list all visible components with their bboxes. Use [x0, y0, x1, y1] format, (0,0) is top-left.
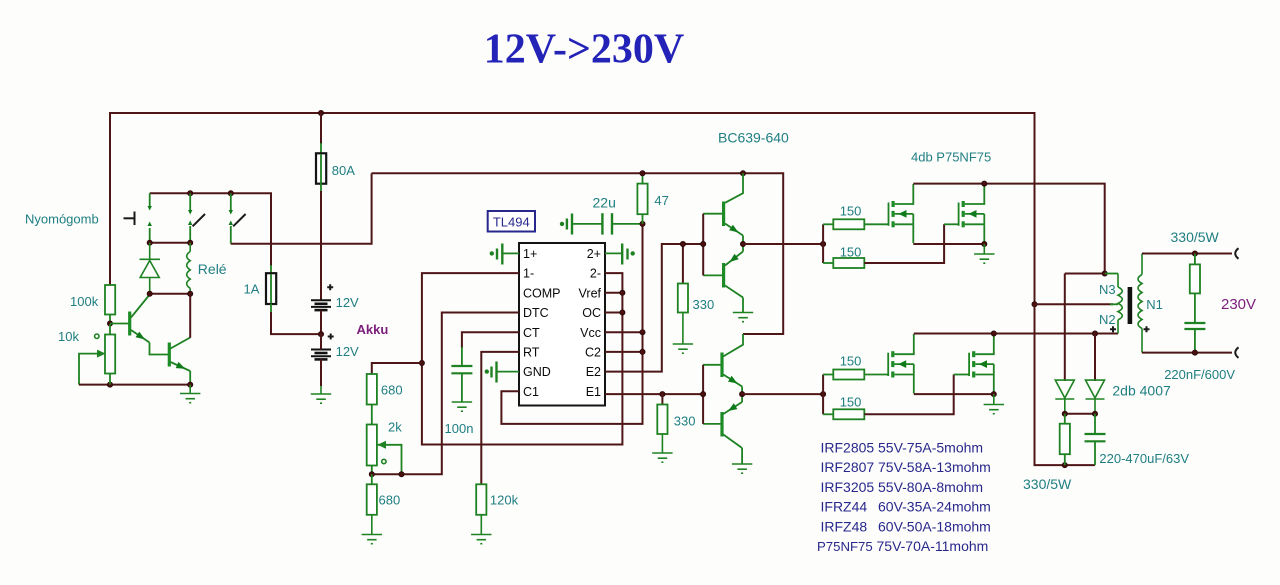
svg-text:80A: 80A	[332, 163, 355, 178]
capacitor 100n	[451, 347, 472, 402]
transistor Q6 BC640 lower PNP	[703, 394, 742, 463]
resistor 150 a	[823, 223, 833, 225]
capacitor at pin 1+	[491, 244, 520, 265]
wire 10k wiper	[79, 354, 105, 385]
svg-text:N3: N3	[1099, 282, 1116, 297]
mosfet M2 P75NF75	[959, 184, 985, 244]
wire 2k bottom	[371, 466, 373, 475]
svg-text:COMP: COMP	[523, 286, 561, 300]
node sw2 top	[228, 191, 233, 196]
mosfet M3 P75NF75	[888, 334, 914, 394]
wire N3 feed	[1065, 273, 1105, 275]
svg-text:10k: 10k	[58, 329, 79, 344]
terminal bottom	[1235, 347, 1238, 358]
transistor Q5 BC639 lower NPN	[703, 334, 743, 394]
wire lower driver to gates	[742, 393, 823, 395]
wire 80A to battery	[320, 184, 322, 193]
svg-text:TL494: TL494	[493, 215, 530, 230]
capacitor at pin 2+	[605, 244, 634, 265]
fuse 80A	[320, 154, 322, 184]
resistor 47	[642, 173, 644, 184]
capacitor 220-470uF	[1085, 414, 1106, 465]
svg-text:150: 150	[840, 203, 862, 218]
wire divider top	[372, 363, 422, 375]
wire relay contact rail	[150, 193, 271, 266]
svg-text:GND: GND	[523, 365, 551, 379]
svg-text:2+: 2+	[587, 247, 601, 261]
resistor 150 b	[823, 262, 833, 264]
wire diode column	[1064, 274, 1066, 382]
svg-text:1-: 1-	[523, 267, 534, 281]
svg-text:330: 330	[674, 413, 696, 428]
transformer TR1	[1118, 274, 1122, 334]
svg-text:CT: CT	[523, 326, 540, 340]
svg-text:12V: 12V	[336, 344, 359, 359]
svg-text:N1: N1	[1146, 297, 1163, 312]
wire RT net	[481, 352, 519, 485]
wire E1 net	[605, 393, 703, 395]
wire output top	[1142, 253, 1232, 255]
svg-text:N2: N2	[1099, 312, 1116, 327]
wire relay bottom	[150, 293, 191, 295]
wire center tap	[1035, 303, 1114, 305]
wire 100k to node	[109, 315, 111, 325]
diode D1 flyback	[140, 243, 161, 294]
mosfet M4 P75NF75	[969, 334, 994, 394]
polarity marks	[1110, 326, 1116, 332]
resistor 680 upper	[367, 374, 377, 405]
svg-text:1A: 1A	[244, 281, 260, 296]
node top rail / 80A branch	[318, 110, 323, 115]
node divider top	[419, 360, 424, 365]
node sw1 top	[188, 191, 193, 196]
resistor 330 upper	[682, 244, 684, 284]
wire lower driver base tie	[702, 365, 704, 424]
IC TL494 box	[519, 243, 605, 406]
fuse 1A	[270, 193, 272, 266]
capacitor 220nF/600V	[1184, 323, 1205, 353]
ground 330 lower	[652, 434, 672, 462]
svg-text:RT: RT	[523, 346, 540, 360]
capacitor 22u	[561, 213, 643, 234]
svg-text:2k: 2k	[388, 419, 402, 434]
wire diode join	[1065, 413, 1095, 415]
ground 120k	[471, 515, 491, 544]
svg-text:2-: 2-	[590, 267, 601, 281]
mosfet type list	[817, 440, 991, 555]
svg-text:220nF/600V: 220nF/600V	[1164, 367, 1235, 382]
diode D2 4007	[1055, 380, 1074, 414]
svg-text:22u: 22u	[593, 195, 616, 211]
wire sw2 to driver rail riser	[231, 173, 372, 244]
svg-text:Akku: Akku	[357, 322, 389, 337]
svg-text:12V->230V: 12V->230V	[484, 27, 684, 73]
wire 80A riser upper	[320, 113, 322, 144]
svg-text:1+: 1+	[523, 247, 537, 261]
svg-text:IRF280775V-58A-13mohm: IRF280775V-58A-13mohm	[821, 459, 991, 475]
svg-text:220-470uF/63V: 220-470uF/63V	[1099, 451, 1189, 466]
wire 2k wiper	[378, 445, 402, 475]
svg-text:47: 47	[654, 193, 668, 208]
svg-text:12V: 12V	[336, 295, 359, 310]
wire lower sources	[914, 393, 994, 395]
core	[1128, 287, 1133, 324]
wire snubber return	[1035, 304, 1096, 465]
wire 150b to M2 gate	[864, 224, 944, 263]
svg-text:330/5W: 330/5W	[1171, 229, 1220, 245]
svg-text:4db P75NF75: 4db P75NF75	[911, 150, 991, 165]
node upper driver out	[740, 241, 745, 246]
wire Vcc lead	[605, 331, 643, 333]
svg-text:100n: 100n	[445, 421, 474, 436]
wire upper driver base tie	[702, 214, 704, 276]
wire output bottom	[1142, 352, 1232, 354]
svg-text:330/5W: 330/5W	[1023, 476, 1072, 492]
ground 680	[362, 515, 382, 544]
ground upper PNP	[733, 313, 753, 322]
svg-text:IRF320555V-80A-8mohm: IRF320555V-80A-8mohm	[821, 479, 984, 495]
transistor Q4 BC640 upper PNP	[703, 244, 743, 312]
wire DTC net	[372, 313, 519, 475]
resistor 330/5W output	[1194, 254, 1196, 265]
node center tap rail	[1032, 302, 1037, 307]
potentiometer 10k	[105, 335, 115, 374]
node 47/22u/Vcc	[640, 221, 645, 226]
ground battery	[311, 386, 331, 403]
wire bottom left	[79, 384, 190, 386]
push button contacts	[148, 193, 152, 243]
svg-text:DTC: DTC	[523, 306, 549, 320]
svg-text:E1: E1	[586, 385, 601, 399]
primary N3/N2 winding	[1117, 274, 1119, 288]
wire OC lead	[605, 312, 622, 314]
ground under Q2	[180, 385, 200, 403]
resistor 330/5W snubber	[1064, 414, 1066, 424]
label box TL494	[488, 211, 535, 232]
wire Vref lead	[605, 292, 622, 294]
wire C1 wrap to C2/Vcc column	[501, 224, 642, 424]
svg-text:680: 680	[379, 493, 401, 508]
terminal top	[1235, 248, 1238, 259]
svg-text:C2: C2	[585, 346, 601, 360]
svg-text:230V: 230V	[1221, 296, 1256, 313]
node lower driver out	[740, 392, 745, 397]
wire lower drain rail	[914, 333, 1118, 335]
svg-text:150: 150	[840, 245, 862, 260]
svg-text:120k: 120k	[490, 493, 519, 508]
wire Q2 collector	[189, 294, 191, 338]
svg-text:150: 150	[840, 395, 862, 410]
ground lower mosfets	[984, 394, 1004, 414]
transistor Q1	[130, 295, 168, 355]
wire 680 to 2k	[371, 405, 373, 425]
node upper gates junction	[821, 241, 826, 246]
ground lower PNP	[732, 464, 752, 473]
wire base T1	[110, 323, 129, 325]
wire pushbutton bottom	[150, 242, 191, 244]
ground 100n	[452, 402, 472, 411]
wire 150d to M4 gate	[864, 375, 953, 415]
secondary N1 winding	[1138, 254, 1142, 353]
svg-text:OC: OC	[582, 306, 601, 320]
push button symbol	[124, 212, 135, 226]
svg-text:100k: 100k	[70, 294, 99, 309]
relay coil	[187, 243, 191, 294]
mosfet M1 P75NF75	[889, 184, 914, 243]
resistor 680 lower	[371, 474, 373, 484]
svg-text:E2: E2	[586, 365, 601, 379]
svg-text:Vref: Vref	[579, 286, 602, 300]
svg-text:Relé: Relé	[198, 261, 227, 277]
svg-text:P75NF7575V-70A-11mohm: P75NF7575V-70A-11mohm	[817, 538, 988, 554]
battery B2 12V	[328, 334, 334, 340]
node emitter Q2	[188, 382, 193, 387]
node battery mid	[318, 332, 323, 337]
svg-text:Vcc: Vcc	[580, 326, 601, 340]
relay switch contact 1	[188, 193, 205, 243]
ground 330 upper	[673, 313, 693, 354]
svg-text:IRF280555V-75A-5mohm: IRF280555V-75A-5mohm	[821, 440, 984, 456]
capacitor at pin GND	[486, 362, 520, 383]
wire top +24V rail	[110, 113, 1035, 304]
svg-text:IFRZ4460V-35A-24mohm: IFRZ4460V-35A-24mohm	[821, 499, 991, 515]
svg-text:330: 330	[693, 297, 715, 312]
resistor 150 c	[823, 374, 833, 376]
wire driver +12V rail	[372, 173, 784, 334]
transistor Q3 BC639 upper NPN	[703, 173, 743, 244]
svg-text:C1: C1	[523, 385, 539, 399]
wire 1- feedback loop	[422, 273, 623, 444]
svg-text:IRFZ4860V-50A-18mohm: IRFZ4860V-50A-18mohm	[821, 518, 991, 534]
transistor Q2	[169, 338, 190, 385]
wire CT net	[462, 332, 519, 348]
wire upper drain rail	[913, 184, 1104, 274]
resistor 150 d	[823, 413, 833, 415]
svg-text:Nyomógomb: Nyomógomb	[25, 212, 99, 227]
svg-text:2db 4007: 2db 4007	[1112, 382, 1171, 398]
wire upper driver to gates	[743, 243, 823, 245]
node 10k bottom	[107, 382, 112, 387]
ground upper mosfets	[974, 244, 994, 263]
battery B1 12V	[311, 300, 331, 310]
svg-text:BC639-640: BC639-640	[718, 130, 789, 146]
svg-text:680: 680	[381, 383, 403, 398]
resistor 100k	[105, 285, 115, 315]
node base T1	[107, 321, 112, 326]
resistor 120k	[476, 484, 486, 515]
resistor 330 lower	[661, 394, 663, 405]
svg-text:150: 150	[840, 354, 862, 369]
diode D3 4007	[1086, 334, 1105, 414]
wire C2 lead	[605, 351, 643, 353]
potentiometer 2k	[367, 425, 377, 466]
wire E2 net	[605, 244, 703, 372]
node lower gates junction	[821, 392, 826, 397]
relay switch contact 2	[229, 193, 246, 243]
wire upper sources	[913, 243, 984, 245]
